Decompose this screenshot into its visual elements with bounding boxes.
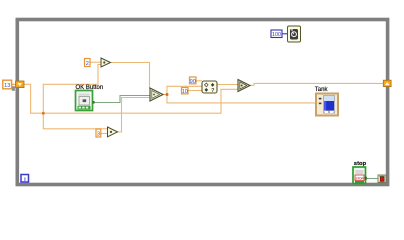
- wire junction up to multiply: [43, 65, 101, 114]
- wire 13 to left shift register: [12, 83, 16, 85]
- wire tunnel down to junction: [24, 84, 43, 113]
- wire long run to add lower input: [43, 89, 238, 113]
- wire junction down to lower multiply: [43, 113, 107, 129]
- gray mark below 13 constant: [12, 86, 15, 91]
- multiply M2: [108, 127, 118, 137]
- svg-text:13: 13: [4, 83, 10, 89]
- svg-text:10: 10: [182, 89, 188, 95]
- wait until next ms multiple: [288, 26, 301, 42]
- Tank indicator: [316, 94, 338, 116]
- iteration terminal i: [21, 175, 29, 183]
- constant 3: [96, 129, 101, 137]
- junction dot: [42, 112, 45, 115]
- wire 100 to wait: [282, 33, 288, 35]
- svg-text:STOP: STOP: [355, 177, 363, 181]
- wire const3 to multiply3: [101, 133, 108, 135]
- wire add out to right shift register: [250, 83, 384, 85]
- junction dot select: [166, 93, 169, 96]
- constant 100: [271, 30, 282, 38]
- wire select out down to tank: [167, 95, 316, 103]
- OK Button terminal: [76, 91, 95, 111]
- stop button terminal: [353, 167, 367, 184]
- wire 90 to coerce: [196, 80, 202, 82]
- svg-text:Tank: Tank: [315, 87, 329, 93]
- svg-text:?: ?: [211, 88, 214, 94]
- in range and coerce: [202, 81, 217, 94]
- multiply M1: [101, 58, 111, 67]
- wire coerce out to add: [217, 84, 238, 86]
- wire stop to loop condition: [367, 178, 379, 180]
- svg-text:2: 2: [86, 61, 89, 67]
- svg-text:stop: stop: [354, 161, 367, 167]
- wire select out up to coerce x input: [167, 86, 202, 94]
- wire 10 to coerce: [188, 90, 203, 92]
- while loop border: [17, 20, 387, 185]
- svg-text:90: 90: [190, 79, 196, 85]
- wire select out: [163, 94, 167, 96]
- wire multiply out to select top: [111, 63, 150, 89]
- constant 10: [182, 88, 189, 96]
- loop condition terminal: [378, 175, 386, 183]
- right shift register tunnel: [383, 80, 391, 86]
- svg-text:100: 100: [272, 32, 281, 38]
- constant 2: [85, 59, 91, 67]
- wire const2 to multiply: [90, 61, 101, 63]
- select node: [150, 88, 163, 101]
- svg-text:3: 3: [97, 131, 100, 137]
- wire OK button to select (boolean): [93, 96, 150, 103]
- constant 90: [190, 77, 197, 85]
- constant 13: [3, 80, 12, 89]
- left shift register tunnel: [16, 81, 25, 88]
- wire multiply3 out to select bottom: [118, 98, 151, 133]
- add node: [238, 80, 250, 92]
